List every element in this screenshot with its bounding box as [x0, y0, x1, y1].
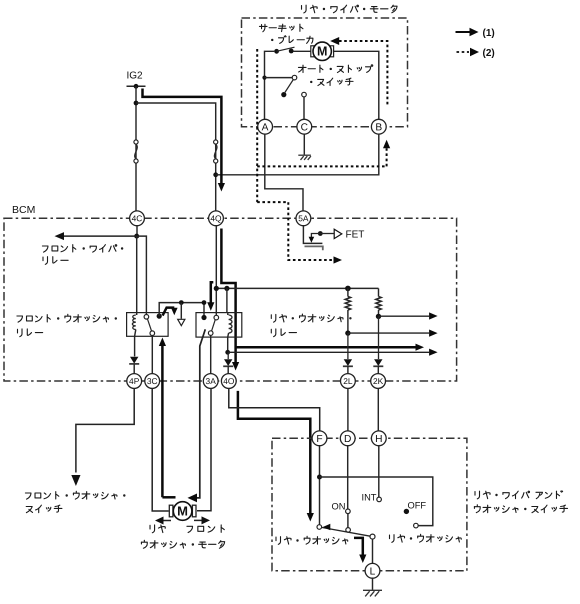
junction to B: [213, 172, 218, 177]
label リヤ・ワイパ アンド ウォッシャ・スイッチ: [475, 491, 563, 499]
flow(1) motor up to relay: [162, 496, 175, 499]
wire: motor loop left/top: [265, 51, 275, 120]
connector 3C: [145, 374, 160, 389]
diode D1: [130, 357, 138, 364]
output arrow from coil node: [228, 351, 429, 353]
wire 2L to D: [347, 388, 349, 431]
wire F down: [319, 446, 321, 525]
auto-stop switch (オート・ストップ・スイッチ): [262, 76, 266, 80]
motor M1 (rear wiper motor): [333, 51, 379, 120]
connector 4Q: [209, 211, 224, 226]
wire relay to 4P with diode: [134, 336, 136, 356]
junction + triangle tap: [179, 300, 184, 305]
FET gate plate: [305, 246, 323, 250]
flow(1): IG2 to 4Q: [143, 89, 222, 187]
box BCM: [4, 218, 457, 381]
arrow リヤ (left): [161, 520, 171, 522]
wire 2K to H: [377, 388, 379, 431]
svg-text:FET: FET: [346, 230, 365, 241]
diode D3: [344, 359, 352, 366]
front wiper relay arrow: [134, 234, 139, 239]
connector L: [365, 563, 380, 578]
wire 4O to F: [229, 388, 320, 431]
connector H: [371, 431, 386, 446]
output arrow from R2: [379, 315, 430, 317]
wire 4C down: [136, 226, 138, 237]
svg-text:A: A: [262, 122, 269, 133]
wire 5A to FET: [303, 226, 322, 244]
labels ON INT OFF: [332, 502, 346, 512]
wire 4Q net horizontal: [215, 226, 217, 289]
diode D2: [224, 359, 232, 366]
flow(1) in relay: [163, 308, 175, 316]
svg-text:M: M: [317, 45, 327, 59]
label リヤ・ウオッシャ・リレー: [271, 314, 351, 322]
F contact: [317, 525, 322, 530]
flow(2): to FET: [257, 202, 333, 260]
flow(1) hook to L: [354, 538, 363, 556]
wire arm to washer motor (flow): [197, 329, 206, 498]
svg-text:BCM: BCM: [12, 204, 35, 216]
flow(1) arrow into relay: [211, 282, 214, 303]
wire 4C to front washer relay: [136, 236, 138, 313]
node B: [371, 119, 386, 134]
connector 3A: [203, 374, 218, 389]
svg-text:H: H: [375, 434, 382, 445]
connector 5A: [296, 211, 311, 226]
connector 4C: [130, 211, 145, 226]
svg-text:IG2: IG2: [127, 71, 144, 82]
connector 4P: [127, 374, 142, 389]
wire contact link front-rear: [159, 303, 204, 317]
flow(1): below 4Q to 4O: [221, 229, 235, 365]
svg-text:3C: 3C: [147, 376, 158, 386]
OFF position dot: [404, 509, 409, 514]
relay coil: [136, 313, 138, 315]
svg-text:3A: 3A: [206, 376, 217, 386]
label フロント・ワイパ・リレー: [42, 245, 122, 252]
svg-text:ON: ON: [332, 502, 346, 512]
arrow フロント (right): [194, 519, 204, 521]
flow(2): motor feedback dashed: [330, 37, 339, 45]
diode D4: [374, 359, 382, 366]
svg-text:2L: 2L: [343, 376, 353, 386]
ground under L: [372, 578, 374, 590]
wire 4P to front washer switch: [76, 388, 134, 472]
svg-text:4Q: 4Q: [210, 213, 222, 223]
node A: [258, 119, 273, 134]
junction: [134, 101, 139, 106]
switch arm: [322, 527, 371, 536]
flow(1): below BCM to rear switch: [238, 391, 310, 514]
svg-text:F: F: [316, 434, 322, 445]
label リヤ・ウォッシャ (right): [389, 534, 461, 542]
wire H to INT: [378, 446, 380, 498]
relay contact: [144, 315, 149, 320]
relay pivot + arm: [214, 315, 219, 320]
wire A to 5A: [265, 134, 303, 211]
flow(2): breaker down path: [256, 49, 258, 202]
svg-text:L: L: [370, 566, 376, 577]
box: rear wiper motor (リヤ・ワイパ・モータ): [242, 18, 408, 127]
relay contact dot: [201, 315, 206, 320]
label フロント・ウオッシャ・リレー: [17, 314, 117, 322]
svg-text:4P: 4P: [129, 376, 140, 386]
resistor R2: [378, 288, 380, 296]
label リヤ・ワイパ・モータ: [302, 5, 398, 13]
wire IG2 down to 4C: [135, 86, 137, 211]
svg-text:OFF: OFF: [408, 501, 427, 511]
wire pivot up to 4Q net: [215, 288, 217, 315]
connector 4O: [221, 374, 236, 389]
wire 3A to washer motor: [197, 388, 211, 511]
connector D: [340, 431, 355, 446]
legend arrow (1): [456, 31, 471, 33]
inline connector on 4Q wire: [214, 140, 218, 144]
connector F: [312, 431, 327, 446]
relay: front washer relay box: [127, 313, 169, 337]
label オート・ストップ・スイッチ: [298, 65, 372, 73]
svg-text:2K: 2K: [373, 376, 384, 386]
svg-text:(1): (1): [483, 28, 495, 39]
wire to rear relay coil: [226, 288, 228, 312]
label フロント・ウオッシャ・スイッチ: [25, 491, 125, 499]
motor M2 (washer motor): [169, 505, 173, 517]
connector 2L: [341, 374, 356, 389]
wire to rear motor B: [216, 134, 379, 175]
wire D to ON: [347, 446, 349, 510]
svg-text:D: D: [344, 434, 351, 445]
wire to OFF contact: [320, 477, 433, 526]
wire branch to 4Q: [136, 103, 216, 211]
svg-text:M: M: [177, 504, 188, 519]
svg-text:4C: 4C: [132, 213, 143, 223]
output arrow from R1: [348, 332, 429, 334]
label ウオッシャ・モータ: [141, 540, 224, 548]
flow(1) branch right arrow: [236, 346, 416, 349]
FET driver symbol: [318, 231, 323, 236]
svg-text:(2): (2): [483, 48, 495, 59]
label リヤ・ウオッシャ (left): [276, 536, 348, 544]
svg-text:C: C: [301, 122, 308, 133]
relay: rear washer relay box: [196, 313, 242, 338]
label BCM: [12, 204, 35, 216]
resistor R1: [345, 297, 350, 311]
wire arm to L: [372, 539, 374, 563]
legend arrow (2): [457, 51, 470, 53]
wire contact to 3C: [151, 335, 153, 374]
node IG2: [127, 71, 144, 82]
label FET: [346, 230, 365, 241]
svg-text:4O: 4O: [223, 376, 235, 386]
wire contact to 3A: [210, 335, 212, 374]
label サーキット・ブレーカ: [259, 24, 303, 32]
connector 2K: [371, 374, 386, 389]
svg-text:INT: INT: [362, 493, 377, 503]
svg-text:B: B: [375, 122, 382, 133]
inline connector on 4C wire: [134, 140, 138, 144]
box: rear wiper and washer switch: [272, 438, 467, 571]
node C: [297, 119, 312, 134]
label リヤ / フロント: [150, 525, 165, 533]
svg-text:5A: 5A: [298, 213, 309, 223]
circuit breaker: [274, 49, 279, 54]
wire 3C to washer motor: [152, 388, 169, 511]
ground under C: [303, 134, 305, 155]
